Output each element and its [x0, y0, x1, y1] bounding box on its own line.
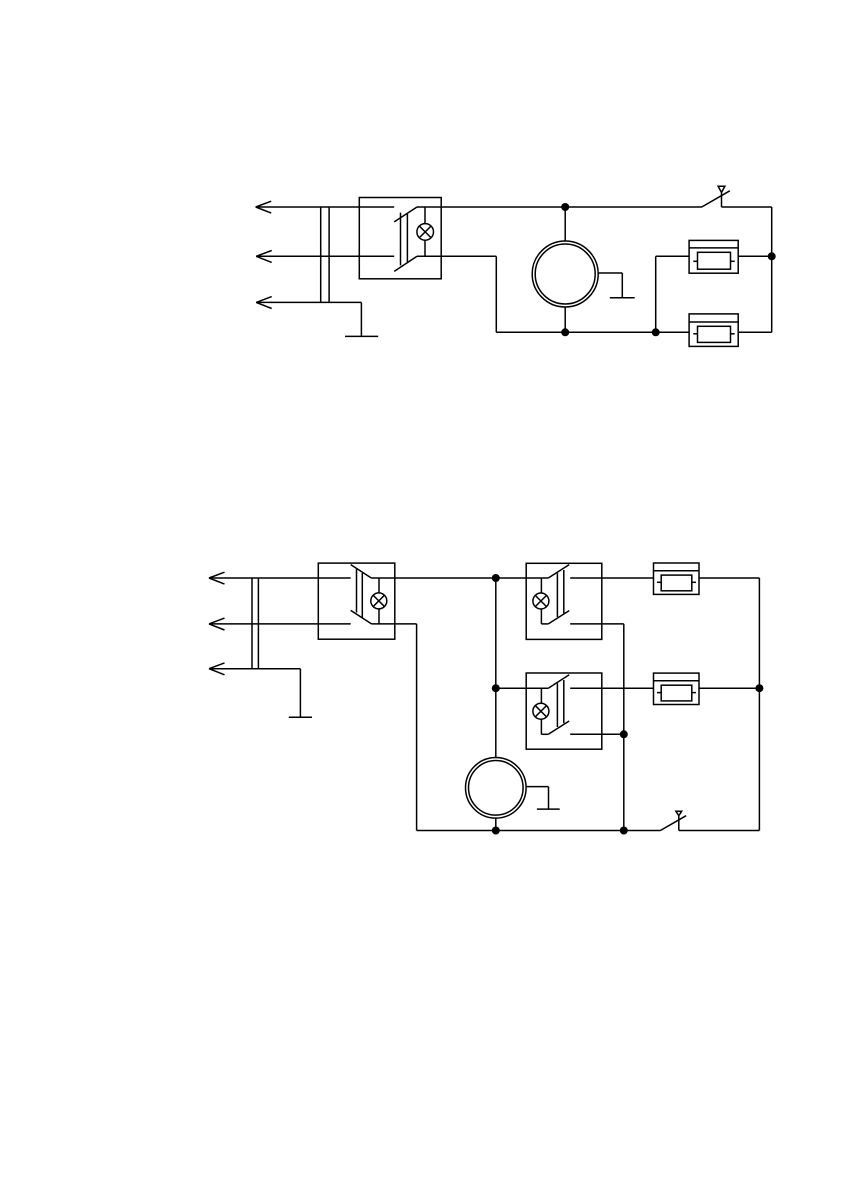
wire L2 from S1 with drop to bottom rail	[417, 256, 496, 332]
switch S2 upper pole blade	[351, 565, 372, 578]
switch box S3 enclosure	[526, 563, 602, 639]
indicator lamp HL3	[533, 593, 549, 609]
ground (left, bottom diagram)	[289, 669, 312, 718]
wire from SA2 to right bus	[679, 830, 760, 832]
wire L1 from S1 to switch SA1	[417, 206, 702, 208]
switch SA1 actuator triangle	[718, 186, 725, 192]
wire FU2 right lead	[738, 331, 772, 333]
feeder arrow 5 (bottom diagram, line L2)	[209, 618, 225, 630]
node: motor M2 bottom junction	[492, 827, 500, 835]
motor M2 (double circle)	[466, 758, 527, 819]
wire N from arrow to ground drop	[256, 301, 361, 303]
ground (left, top diagram)	[345, 302, 378, 336]
fuse FU4	[654, 673, 700, 704]
switch S4 lower pole blade	[548, 721, 569, 734]
bottom rail wire (bottom diagram)	[417, 830, 661, 832]
right bus wire (top diagram)	[771, 207, 773, 332]
switch S1 linkage bars	[401, 213, 408, 266]
wire from FU1 down to bottom rail	[655, 256, 657, 332]
switch S3 linkage bars	[557, 570, 563, 617]
wire FU3 right lead	[699, 577, 759, 579]
indicator lamp HL4 leads	[541, 688, 548, 734]
node: FU1 to right bus	[768, 252, 776, 260]
node: branch to switch box S4	[492, 684, 500, 692]
indicator lamp HL4	[533, 703, 549, 719]
indicator lamp HL3 leads	[541, 578, 548, 624]
switch S3 upper pole blade	[548, 565, 569, 578]
indicator lamp HL1	[417, 224, 434, 241]
wire L2 from arrow into switch box K1	[256, 255, 394, 257]
wire from S4 lower pole to drop	[570, 733, 624, 735]
motor M2 bottom lead	[495, 818, 497, 830]
wire N from arrow to ground drop (bottom)	[209, 668, 300, 670]
switch S1 upper pole blade	[394, 207, 417, 222]
node: FU4 to right bus	[755, 684, 763, 692]
wire from S3 upper pole to fuse FU3	[570, 577, 653, 579]
wire from S4 upper pole to fuse FU4	[570, 687, 653, 689]
bottom rail wire (top diagram)	[496, 331, 689, 333]
motor M1 top lead	[564, 207, 566, 241]
switch SA2 actuator triangle	[676, 811, 682, 816]
wire FU1 right lead	[738, 255, 772, 257]
ground (motor M2 frame)	[526, 787, 560, 810]
fuse FU2	[689, 314, 738, 347]
motor M1 bottom lead	[564, 307, 566, 332]
wire L2 from arrow into switch box S2	[209, 623, 351, 625]
switch S4 linkage bars	[557, 680, 563, 727]
switch S1 lower pole blade	[394, 256, 417, 271]
fuse FU3	[654, 563, 700, 594]
switch box S4 enclosure	[526, 673, 602, 749]
feeder arrow 4 (bottom diagram, line L1)	[209, 572, 225, 584]
feeder arrow 3 (top diagram, line N)	[256, 297, 272, 309]
main vertical wire to motor M2	[495, 578, 497, 758]
indicator lamp HL2	[371, 593, 387, 609]
fuse FU1	[689, 240, 738, 273]
wire L1 from arrow to switch box K1	[256, 206, 395, 208]
wire L1 from arrow to switch box S2	[209, 577, 351, 579]
feeder arrow 2 (top diagram, line L2)	[256, 251, 272, 263]
wire L2 from S2 with drop to bottom rail	[372, 624, 417, 831]
switch S2 linkage bars	[357, 569, 363, 617]
wire from junction into S4	[496, 687, 549, 689]
cable marking bus (two vertical strokes)	[321, 207, 329, 302]
feeder arrow 1 (top diagram, line L1)	[256, 201, 272, 213]
switch SA2 blade	[660, 816, 686, 831]
wire FU1 left lead	[656, 255, 689, 257]
switch box S2 enclosure	[318, 563, 395, 639]
switch S4 upper pole blade	[548, 675, 569, 688]
wire from S3 lower pole with drop	[570, 624, 624, 831]
switch S3 lower pole blade	[548, 611, 569, 624]
node: motor M1 top junction	[561, 203, 569, 211]
switch SA2 fixed contact stub	[678, 816, 680, 831]
indicator lamp HL1 leads	[424, 207, 426, 256]
motor M1 (double circle)	[532, 241, 598, 307]
wire from SA1 to right bus	[722, 206, 772, 208]
node: motor M1 bottom junction	[561, 328, 569, 336]
ground (motor M1 frame)	[598, 273, 635, 298]
switch SA1 blade	[702, 191, 730, 207]
right bus wire (bottom diagram)	[758, 578, 760, 831]
node: rail junction at drop	[620, 827, 628, 835]
node: FU1 branch junction	[652, 328, 660, 336]
switch box S1 enclosure	[359, 198, 441, 279]
node: S4 lower pole to drop junction	[620, 730, 628, 738]
feeder arrow 6 (bottom diagram, line N)	[209, 663, 225, 675]
wire FU4 right lead	[699, 687, 759, 689]
indicator lamp HL2 leads	[378, 578, 380, 624]
node: main drop junction on L1	[492, 574, 500, 582]
switch SA1 fixed contact stub	[721, 192, 723, 207]
switch S2 lower pole blade	[351, 610, 372, 624]
wire L1 from S2 into switch box S3	[371, 577, 548, 579]
cable marking bus (bottom diagram)	[252, 578, 258, 669]
